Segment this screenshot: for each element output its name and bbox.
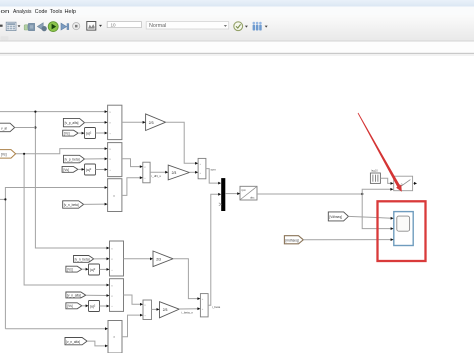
red annotation arrow [358,113,402,192]
node A1 junction [34,111,36,113]
switch SW1 [394,176,413,191]
from tag [v_n_beta] [63,201,84,208]
svg-text:|u|²: |u|² [90,268,96,272]
svg-text:[v_n_beta]: [v_n_beta] [64,203,79,207]
wire U5 out to divide D2 port1 [124,295,142,304]
svg-text:rpm: rpm [211,167,217,171]
wire U1 out to gain G1 [122,121,144,123]
wire D1 out to gain G2, label i_dN_s [150,171,166,173]
magnitude-squared block SQ4 |u|^2 [89,301,100,312]
svg-text:Normal: Normal [149,23,166,29]
svg-text:[Vdhseq]: [Vdhseq] [329,215,342,219]
gain G2 2/3 [168,165,189,180]
wire [v_p_alfa] to U1 port 2 [85,121,106,123]
menu items [1,9,77,15]
wire [Vs]a to SQ1 [78,132,83,134]
wire U6 out to divide D2 port2 [122,315,141,337]
svg-text:|u|²: |u|² [86,168,92,172]
svg-text:[Vs]: [Vs] [64,132,70,136]
svg-text:Help: Help [65,9,77,15]
arrowheads at ports [82,110,394,347]
wire [v_n_alfa] to U5 port2 [86,294,108,296]
toolbar background [0,15,474,41]
wire [Vdhseq] to scope port1 [348,216,391,218]
wire U2 out to divide D1 port1 [122,159,141,167]
wire [v_n_alfa]b to U6 port2 [87,341,106,346]
from tag [mdhseq] (orange) [284,236,303,244]
svg-text:abc: abc [250,195,255,199]
wire U4 out to gain G3 [124,258,152,260]
svg-text:on: on [1,9,10,15]
from tag [Vs] c [66,266,82,272]
svg-text:[Vs]: [Vs] [1,153,7,157]
wire [Vs]c to SQ3 [82,268,87,270]
from tag [Vdhseq] [328,212,348,221]
window title strip [0,0,474,7]
from tag [Vs] d [66,303,82,309]
svg-text:Code: Code [35,9,48,15]
svg-text:i_dN_s: i_dN_s [151,174,161,178]
node A2 junction [34,126,36,128]
svg-text:|u|²: |u|² [86,132,92,136]
svg-text:[mdhseq]: [mdhseq] [286,238,299,242]
gain G4 2/3 [160,302,180,318]
svg-text:i_beta: i_beta [212,305,221,309]
wire S1 out to mux M1 port1, label rpm [206,169,219,184]
sum block S2 [200,294,208,317]
svg-text:[v_n_alfa]: [v_n_alfa] [66,340,80,344]
svg-text:10: 10 [111,22,117,27]
svg-text:2/3: 2/3 [149,121,154,125]
wire SQ2 to U2 port 3 [96,169,106,171]
mux M1 [221,178,225,211]
divide block D2 [143,300,152,320]
from tag [v_p_alfa] [63,118,84,126]
magnitude-squared block SQ3 |u|^2 [89,264,100,275]
wire switch SW1 out stub [413,182,415,184]
scope SC1 [394,212,413,246]
svg-text:2/3: 2/3 [156,257,161,261]
wire net B (orange tag net) [16,149,108,285]
wire [Vs]d to SQ4 [82,305,87,307]
svg-text:|u|²: |u|² [90,305,96,309]
svg-text:[Vs]: [Vs] [63,168,69,172]
wire [Vs]b to SQ2 [78,168,83,170]
from tag P2 [Vs] (orange, cut at left edge) [0,150,16,159]
wire SQ1 to U1 port 3 [96,132,106,134]
svg-text:[v_p_alfa]: [v_p_alfa] [65,121,79,125]
mux M1 unconnected port3 [219,203,221,206]
product block U6 (bottom, cut at image bottom) [108,321,122,353]
from tag P1 (cut at left edge) [0,123,35,132]
svg-text:i_beta_n: i_beta_n [181,310,193,314]
from tag [v_n_alfa] b [65,338,87,345]
svg-text:[v_n_alfa]: [v_n_alfa] [67,293,81,297]
svg-text:2/3: 2/3 [172,171,177,175]
svg-text:Tools: Tools [50,9,63,15]
wire G3 out to sum S2 port1 [173,259,198,299]
product block U3 (third) [108,179,122,212]
svg-text:[Vs]: [Vs] [67,304,73,308]
from tag [v_n_beta] b [74,256,94,263]
svg-text:[v_p_beta]: [v_p_beta] [65,158,80,162]
wire B8 out to switch SW1 port1 [380,178,390,183]
gain G1 2/3 [146,114,166,131]
svg-text:rpm: rpm [241,188,245,192]
from tag [v_p_beta] [64,155,85,163]
wire [v_p_beta] to U2 port 2 [85,158,106,160]
wire [v_n_beta]b to U4 port2 [94,258,108,260]
counter block B8 with label lag10 [370,168,380,183]
svg-text:v_al: v_al [1,126,7,130]
from tag [Vs] a [63,130,78,136]
svg-text:lag10: lag10 [371,168,378,172]
red highlight rectangle [378,201,426,261]
gain G3 2/3 [153,251,173,267]
wire G1 out to sum S1 port1 [166,122,197,163]
wire G4 out to sum S2 port2, label i_beta_n [179,308,198,310]
wire [mdhseq] to scope port3 [303,239,391,241]
wire [v_n_beta] to U3 port 2 [84,203,106,205]
svg-text:Analysis: Analysis [13,9,32,15]
wire mux M1 out to converter B7 [225,193,238,195]
node C1 junction [4,198,6,200]
wire G2 out to sum S1 port2 [189,171,196,173]
wire J1 down to scope port2 [362,194,391,229]
empty white row [0,42,474,53]
subsystem block U4 (fourth) [110,241,124,276]
wire J1 up to switch SW1 port2 [362,189,390,194]
from tag [Vs] b [62,166,78,172]
subsystem block U1 (top) [108,105,122,139]
wire net C (left edge into blocks 3 and 6) [0,188,106,329]
wire S2 out up to mux M1 port2, label i_beta [208,194,219,305]
magnitude-squared block SQ1 |u|^2 [85,128,96,139]
svg-text:[v_n_beta]: [v_n_beta] [75,258,90,262]
menu bar background [0,7,474,16]
wire B7 out to node J1 [257,193,362,195]
node B1 junction [23,153,25,155]
magnitude-squared block SQ2 |u|^2 [85,164,96,175]
from tag [v_n_alfa] [66,292,86,298]
wire net A (top-left horizontal into P1 column) [0,112,108,248]
converter block B7 rpm/abc [240,186,257,200]
subsystem block U2 (second) [108,143,122,177]
divide block D1 [143,162,150,183]
subsystem block U5 (fifth) [110,279,124,312]
sum block S1 [198,158,206,178]
wire SQ3 to U4 port3 [100,268,108,270]
wire SQ4 to U5 port3 [100,305,108,307]
wire U3 out to divide D1 port2 [122,178,141,196]
svg-text:2/3: 2/3 [163,308,168,312]
wire D2 out to gain G4 [152,308,158,310]
node J1 junction [361,193,363,195]
svg-text:[Vs]: [Vs] [67,268,73,272]
